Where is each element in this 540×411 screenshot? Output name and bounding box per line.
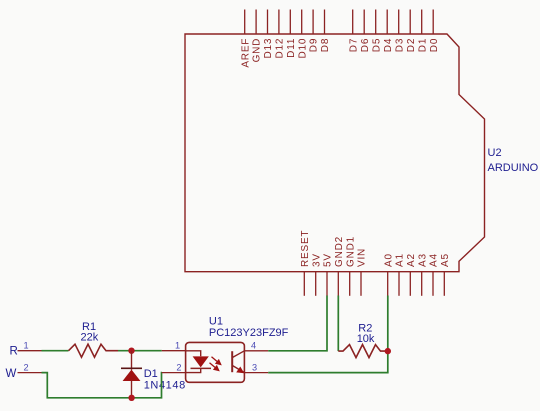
svg-text:1: 1 [24,341,29,351]
wire A0 net: U2 A0 pin down through R2 node to U1 pin 3 [268,296,388,373]
svg-text:4: 4 [251,340,256,350]
U2 pin D13 (top) [263,10,274,59]
U1 phototransistor [232,351,244,373]
svg-text:D12: D12 [275,38,286,59]
svg-text:A5: A5 [440,253,451,267]
junction node R1/D1 [128,348,134,354]
svg-text:A0: A0 [383,253,394,267]
U2 pin D8 (top) [320,10,331,53]
U2 pin 5V (bottom) [323,253,334,296]
U2 pin D7 (top) [348,10,359,53]
svg-text:D8: D8 [320,38,331,52]
svg-text:GND2: GND2 [334,236,345,267]
svg-text:D2: D2 [406,38,417,52]
svg-text:D4: D4 [383,38,394,52]
resistor R2 10k [338,323,388,358]
wire R1 to U1 pin 1 (through node) [118,350,162,352]
junction node D1 bottom / W net [128,395,134,401]
wire 5V net: U2 5V pin down to U1 pin 4 [268,296,327,351]
svg-text:W: W [6,368,17,380]
svg-text:A4: A4 [429,253,440,267]
U2 pin GND1 (bottom) [345,236,356,296]
U2 pin D5 (top) [371,10,382,53]
U2 pin A3 (bottom) [417,253,428,296]
IC U2 ARDUINO body outline [185,34,485,272]
svg-text:D1: D1 [144,368,158,380]
U2 pin A1 (bottom) [395,253,406,296]
U2 pin D9 (top) [309,10,320,53]
svg-text:2: 2 [176,362,181,372]
svg-text:VIN: VIN [357,248,368,267]
U2 pin D11 (top) [286,10,297,58]
svg-text:U2: U2 [488,147,502,159]
U2 pin GND (top) [252,10,263,63]
U2 pin VIN (bottom) [357,248,368,296]
U1 pin 3 lead [244,363,268,373]
U2 pin D1 (top) [417,10,428,53]
net pin R (left input 1) [10,341,42,358]
svg-text:D6: D6 [360,38,371,52]
svg-text:5V: 5V [323,253,334,267]
svg-text:D7: D7 [348,38,359,52]
svg-text:D10: D10 [297,38,308,59]
U2 pin AREF (top) [240,10,251,68]
svg-text:D0: D0 [429,38,440,52]
svg-text:ARDUINO: ARDUINO [488,162,539,174]
svg-text:A1: A1 [395,253,406,267]
svg-text:3: 3 [252,363,257,373]
net pin W (left input 2) [6,362,42,380]
diode D1 1N4148 [121,351,186,398]
U2 pin D12 (top) [275,10,286,59]
wire W net: pin W down and along bottom to D1/U1 pin 2 [42,373,163,398]
U1 internal LED [186,351,211,373]
svg-text:A2: A2 [406,253,417,267]
U1 pin 2 lead [162,362,186,372]
svg-text:D5: D5 [371,38,382,52]
U2 pin D2 (top) [406,10,417,53]
svg-text:1: 1 [175,341,180,351]
U2 pin GND2 (bottom) [334,236,345,296]
svg-text:R: R [10,346,18,358]
svg-text:D3: D3 [394,38,405,52]
U2 pin RESET (bottom) [300,230,311,296]
svg-text:D13: D13 [263,38,274,59]
U2 pin A0 (bottom) [383,253,394,296]
svg-text:2: 2 [24,362,29,372]
U1 LED light arrows [210,357,222,372]
svg-text:AREF: AREF [240,38,251,68]
svg-text:RESET: RESET [300,230,311,267]
svg-text:3V: 3V [311,253,322,267]
svg-text:10k: 10k [357,333,375,345]
svg-text:D9: D9 [309,38,320,52]
svg-text:GND1: GND1 [345,236,356,267]
U2 pin D10 (top) [297,10,308,59]
U1 pin 1 lead [162,341,186,351]
U2 pin D0 (top) [429,10,440,53]
svg-text:U1: U1 [209,316,223,328]
svg-text:D1: D1 [417,38,428,52]
svg-text:PC123Y23FZ9F: PC123Y23FZ9F [209,327,289,339]
wire GND2 net: U2 GND2 pin down to R2 [337,296,339,352]
U1 pin 4 lead [244,340,268,351]
U2 name label [488,147,539,174]
svg-text:D11: D11 [286,38,297,58]
U2 pin D4 (top) [383,10,394,53]
svg-text:GND: GND [252,38,263,63]
resistor R1 22k [69,321,119,357]
U2 pin A2 (bottom) [406,253,417,296]
wire R net: pin R to R1 [42,350,69,352]
U2 pin D3 (top) [394,10,405,53]
junction node R2/A0 [385,348,391,354]
svg-text:A3: A3 [417,253,428,267]
U2 pin A5 (bottom) [440,253,451,296]
U2 pin D6 (top) [360,10,371,53]
optocoupler U1 PC123Y23FZ9F body [186,316,289,383]
svg-text:22k: 22k [81,332,99,344]
svg-text:1N4148: 1N4148 [144,380,186,392]
U2 pin 3V (bottom) [311,253,322,296]
U2 pin A4 (bottom) [429,253,440,296]
